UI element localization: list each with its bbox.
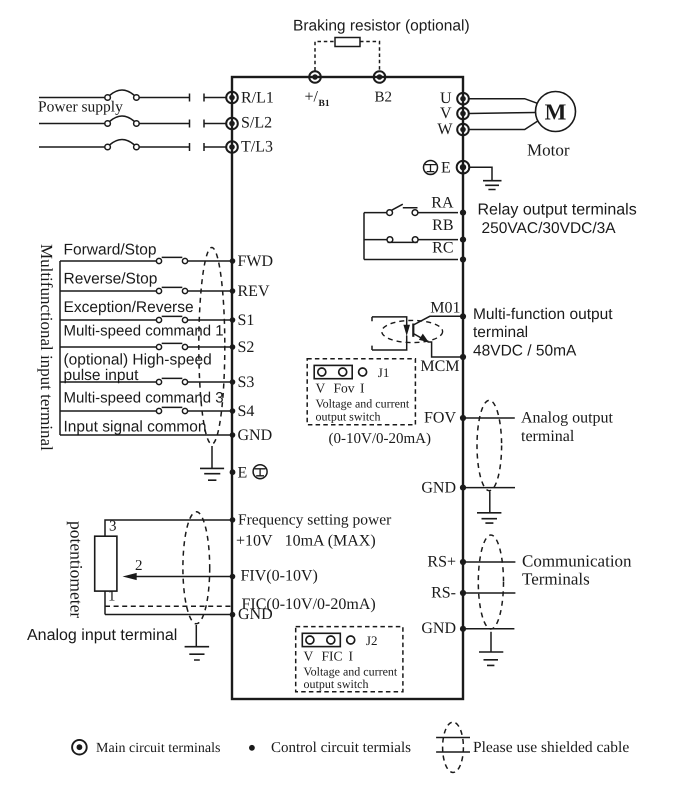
node S1 [230,317,236,323]
wire shield to ground (analog output) [489,492,491,513]
collector to M01 [413,316,463,325]
ground (communication shield) [479,652,503,665]
label: Communication Terminals [522,551,632,588]
svg-text:R/L1: R/L1 [241,89,274,106]
node REV [230,288,236,294]
jumper block J1 [307,359,415,425]
wire FOV [463,417,515,419]
shielded cable ellipse (input) [199,247,225,444]
svg-text:Power supply: Power supply [38,99,123,116]
svg-text:Fov: Fov [334,381,355,396]
wire S3 with switch [60,378,232,384]
svg-text:FIV(0-10V): FIV(0-10V) [241,568,318,585]
svg-text:T/L3: T/L3 [241,139,273,156]
svg-text:V: V [316,381,326,396]
svg-text:J1: J1 [378,365,390,380]
node GND (communication) [460,626,466,632]
LED arrow [403,325,410,336]
label V Fov I [316,381,366,396]
svg-text:250VAC/30VDC/3A: 250VAC/30VDC/3A [482,220,617,237]
svg-text:S/L2: S/L2 [241,115,272,132]
terminal R/L1 [226,92,238,104]
wire: phase T with breaker contact [39,140,226,152]
svg-text:RB: RB [432,217,453,234]
wire shield to ground (communication) [490,632,492,652]
wire shield to ground (input) [211,446,213,468]
terminal B2 [374,71,386,83]
node GND (input) [230,432,236,438]
svg-text:Multi-speed command 3: Multi-speed command 3 [64,389,224,406]
node GND (analog output) [460,485,466,491]
wire shield to ground (analog input) [195,625,197,647]
svg-text:1: 1 [108,589,116,605]
wire RS- [463,592,515,594]
inverter main box U0 [232,77,463,699]
legend: main circuit terminal symbol [72,740,87,755]
svg-text:E: E [238,465,248,482]
ground (analog input shield) [185,647,210,660]
wire: braking resistor dashed leads [315,42,380,71]
svg-text:M: M [545,99,567,124]
svg-text:I: I [360,381,365,396]
svg-text:Braking resistor (optional): Braking resistor (optional) [293,18,470,35]
shielded cable ellipse (analog output) [477,400,502,490]
svg-text:Analog output: Analog output [521,410,614,427]
svg-text:Terminals: Terminals [522,570,590,589]
svg-text:Main circuit terminals: Main circuit terminals [96,741,220,756]
svg-text:pulse input: pulse input [64,367,140,384]
svg-text:Input signal common: Input signal common [64,419,207,436]
svg-text:Control circuit termials: Control circuit termials [271,740,411,756]
label: Analog output terminal [521,410,614,445]
svg-text:MCM: MCM [420,358,459,375]
wire: input common bus [59,261,61,435]
svg-text:+/: +/ [305,89,319,106]
node S3 [230,379,236,385]
svg-text:48VDC / 50mA: 48VDC / 50mA [473,342,577,359]
svg-text:Exception/Reverse: Exception/Reverse [64,299,194,316]
node FWD [230,258,236,264]
optocoupler dashed ellipse [382,320,443,342]
svg-text:(0-10V/0-20mA): (0-10V/0-20mA) [329,431,431,447]
potentiometer body RP [95,536,117,591]
node FOV [460,415,466,421]
wire FIC (dashed) [105,605,232,607]
svg-text:GND: GND [421,620,456,637]
terminal U [457,93,469,105]
wire FWD with switch [60,257,232,263]
svg-text:RS-: RS- [431,585,456,602]
svg-text:FIC: FIC [322,648,343,663]
svg-text:E: E [441,160,451,177]
svg-text:output switch: output switch [316,409,381,423]
node E (bottom-left) [230,469,236,475]
wire GND (analog output) [463,487,515,489]
wiper arrow (pin 2) to FIV [123,573,233,580]
wire REV with switch [60,287,232,293]
resistor: braking resistor [335,38,360,47]
node S4 [230,408,236,414]
wire +10V supply to pot pin 3 [105,520,232,536]
phototransistor base bar [412,324,414,337]
node RS+ [460,559,466,565]
svg-text:potentiometer: potentiometer [67,521,87,618]
svg-text:RS+: RS+ [427,554,456,571]
relay contact RB (NC) [364,237,458,243]
relay contact RA (NO) [364,204,458,215]
svg-text:GND: GND [421,479,456,496]
label: (optional) High-speed pulse input [64,352,212,385]
label: Voltage and current output switch (J1) [316,397,410,424]
svg-text:3: 3 [109,519,117,535]
node RS- [460,590,466,596]
terminal S/L2 [226,118,238,130]
protective earth symbol near E (top) [424,161,438,175]
wire S2 with switch [60,343,232,349]
svg-text:RC: RC [432,239,453,256]
motor M1 [536,92,576,132]
wire RS+ [463,561,515,563]
ground (input shield) [200,468,224,480]
svg-text:FOV: FOV [424,409,456,426]
node RA [460,210,466,216]
node MCM [460,354,466,360]
svg-text:M01: M01 [430,300,460,317]
svg-text:terminal: terminal [521,428,575,445]
svg-text:B2: B2 [375,90,393,106]
shielded cable ellipse (communication) [478,535,503,629]
svg-text:Multifunctional input terminal: Multifunctional input terminal [37,244,56,451]
svg-text:I: I [349,648,354,663]
svg-text:B1: B1 [319,99,330,109]
wire W to motor [469,121,538,129]
svg-text:Forward/Stop: Forward/Stop [64,241,157,258]
wire pot pin 1 down [104,591,106,614]
svg-text:Analog input terminal: Analog input terminal [27,627,177,644]
svg-text:+10V 10mA (MAX): +10V 10mA (MAX) [236,533,376,550]
svg-text:output switch: output switch [304,677,369,691]
node RC [460,256,466,262]
wire E to ground [469,167,492,180]
svg-text:S4: S4 [238,403,255,420]
emitter with arrow to MCM [413,334,463,358]
wire: phase S with breaker contact [39,116,226,128]
svg-text:REV: REV [238,283,270,300]
svg-text:S2: S2 [238,339,255,356]
ground (analog output shield) [477,513,501,523]
wire GND (analog) [105,614,232,616]
wire V to motor [469,113,536,114]
node RB [460,237,466,243]
node frequency setting power [230,517,236,523]
svg-text:Reverse/Stop: Reverse/Stop [64,270,158,287]
node S2 [230,344,236,350]
node FIV [230,574,236,580]
svg-text:terminal: terminal [473,324,528,341]
svg-text:Motor: Motor [527,141,570,160]
wire U to motor [469,99,538,104]
svg-text:Please use shielded cable: Please use shielded cable [473,739,629,756]
label V FIC I [304,648,354,663]
svg-text:Communication: Communication [522,551,632,570]
node M01 [460,313,466,319]
label +/B1 [305,89,330,110]
label Frequency setting power / +10V 10mA (MAX) [236,511,392,549]
protective earth symbol near E (bottom) [253,465,267,479]
svg-text:Multi-function output: Multi-function output [473,306,613,323]
terminal W [457,124,469,136]
wire S1 with switch [60,316,232,322]
legend: control circuit terminal dot [249,745,255,751]
terminal V [457,108,469,120]
svg-text:S3: S3 [238,374,255,391]
wire GND (input common) [60,434,232,436]
jumper block J2 [296,627,403,692]
svg-text:W: W [437,121,453,138]
svg-text:RA: RA [431,194,454,211]
svg-text:V: V [304,648,314,663]
svg-text:Relay output terminals: Relay output terminals [478,202,637,219]
optocoupler U2 (multi-function output) [372,316,463,357]
terminal +/B1 [309,71,321,83]
svg-text:2: 2 [135,558,143,574]
svg-text:GND: GND [238,427,273,444]
node GND (analog) [230,612,236,618]
terminal E (top) [457,161,470,174]
svg-text:V: V [440,105,452,122]
label: Relay output terminals 250VAC/30VDC/3A [478,202,637,238]
svg-text:S1: S1 [238,312,255,329]
LED input leads [372,317,407,350]
wire GND (communication) [463,628,514,630]
svg-text:FWD: FWD [238,253,274,270]
svg-text:(optional) High-speed: (optional) High-speed [64,352,212,369]
svg-text:J2: J2 [366,633,378,648]
svg-text:Frequency setting power: Frequency setting power [238,511,392,528]
wire S4 with switch [60,407,232,413]
wire RC common [364,213,458,260]
label: Multi-function output terminal 48VDC / 50mA [473,306,613,360]
label: Voltage and current output switch (J2) [304,664,398,691]
legend: shielded cable symbol [436,722,470,772]
terminal T/L3 [226,141,238,153]
svg-text:GND: GND [238,606,273,623]
ground (earth of E top) [483,181,502,190]
shielded cable ellipse (analog input) [183,512,210,624]
wire: phase R with breaker contact [39,90,226,102]
